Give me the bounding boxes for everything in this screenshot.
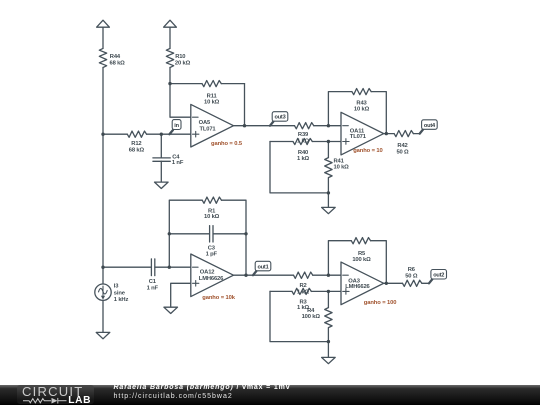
label R2 — [297, 283, 310, 295]
current source I3 — [95, 267, 111, 332]
resistor R10 — [166, 48, 173, 67]
wire to ground OA3 block — [327, 342, 329, 358]
resistor R11 — [170, 81, 245, 87]
wire R3 ground loop — [270, 291, 328, 341]
wire to ground OA11 block — [327, 193, 329, 208]
op-amp OA11 — [341, 112, 384, 155]
footer url — [114, 393, 233, 400]
wire OA12 noninverting to ground — [171, 283, 191, 307]
label R12 — [129, 141, 145, 153]
label R40 — [297, 150, 310, 162]
resistor R41 — [325, 142, 332, 193]
resistor R2 — [294, 272, 313, 278]
ground below OA12 — [164, 307, 178, 313]
node flag out4 — [420, 120, 438, 134]
junction dots top-right — [327, 124, 388, 195]
footer title — [114, 384, 291, 391]
resistor R3 — [270, 288, 341, 294]
resistor R40 — [270, 138, 341, 144]
label R6 — [405, 267, 418, 279]
label R4 — [302, 308, 321, 320]
label R10 — [175, 54, 191, 66]
label R39 — [297, 132, 310, 145]
resistor R42 — [384, 131, 420, 137]
label R43 — [354, 101, 370, 113]
node flag out1 — [253, 261, 271, 275]
label I3 — [114, 284, 129, 304]
node flag out3 — [270, 112, 288, 126]
label OA3 — [345, 279, 370, 291]
label C3 — [206, 245, 218, 257]
wire OA5 output to OA11 inverting input — [234, 125, 342, 127]
label R41 — [334, 159, 350, 171]
wire OA12 output to OA3 inverting input — [234, 274, 342, 276]
op-amp OA5 — [191, 104, 234, 147]
label C1 — [147, 279, 159, 291]
label R42 — [396, 143, 409, 155]
label R5 — [352, 251, 371, 263]
label OA12 — [199, 269, 224, 282]
label OA11 — [350, 129, 367, 141]
logo LAB — [68, 395, 91, 405]
label R1 — [204, 208, 220, 220]
resistor R1 — [169, 197, 246, 275]
wire R10 to OA5 inverting input — [170, 67, 191, 117]
footer bar — [0, 385, 540, 405]
node flag out2 — [429, 270, 447, 284]
op-amp OA3 — [341, 262, 384, 305]
wire R40 ground loop — [270, 142, 328, 193]
resistor R6 — [384, 280, 429, 286]
label R3 — [297, 299, 310, 311]
resistor R12 — [103, 131, 191, 137]
wire left rail — [102, 67, 104, 267]
resistor R39 — [295, 123, 314, 129]
VCC symbol for R10 — [164, 20, 177, 48]
resistor R44 — [99, 48, 106, 67]
resistor R4 — [325, 291, 332, 341]
logo panel — [17, 385, 94, 404]
junction dots top-left — [101, 82, 246, 136]
capacitor C4 — [153, 134, 170, 182]
resistor R43 — [328, 89, 386, 134]
logo CIRCUIT — [22, 384, 83, 399]
label C4 — [172, 154, 184, 166]
VCC symbol for R44 — [97, 20, 110, 48]
resistor R5 — [328, 238, 386, 284]
wire R11 to OA5 output — [244, 84, 246, 126]
capacitor C1 — [103, 259, 191, 276]
label OA5 — [199, 120, 217, 132]
junction dots bottom — [101, 232, 388, 343]
label R44 — [110, 54, 126, 66]
op-amp OA12 — [191, 254, 234, 297]
label R11 — [204, 93, 220, 105]
capacitor C3 — [169, 226, 246, 242]
ground below R41 — [322, 207, 336, 213]
node flag in — [169, 120, 181, 135]
ground below R4 — [322, 357, 336, 363]
ground below I3 — [96, 332, 110, 338]
ground below C4 — [155, 182, 169, 188]
